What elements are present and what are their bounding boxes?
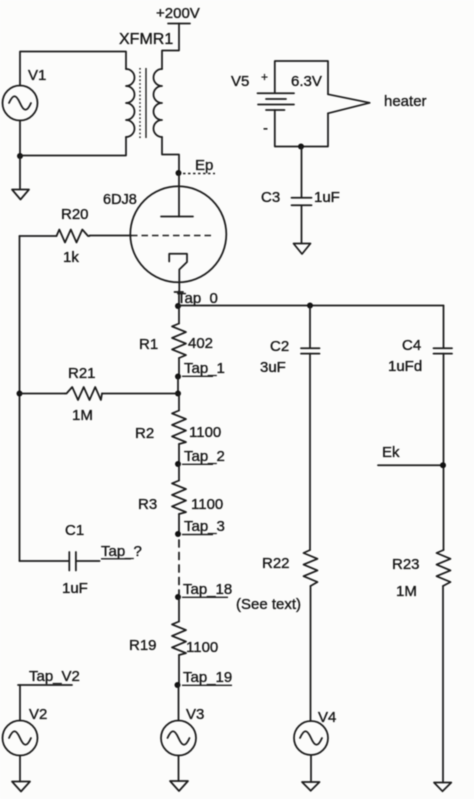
wire transformer secondary bottom to node Ep <box>162 137 179 173</box>
wire rail to C1 <box>20 560 70 562</box>
wire Tap_1 to R21 junction <box>177 377 179 394</box>
source V3 <box>161 721 196 756</box>
svg-text:R2: R2 <box>135 425 154 442</box>
svg-text:Ek: Ek <box>382 444 400 461</box>
svg-text:1uFd: 1uFd <box>388 358 422 375</box>
wire Tap_0 bus to C2 <box>309 306 311 348</box>
node Tap_3 underline <box>182 534 213 536</box>
svg-text:3uF: 3uF <box>260 359 286 376</box>
source V2 <box>3 721 38 756</box>
resistor R1 value 402 <box>188 335 213 352</box>
resistor R20 label <box>61 206 89 223</box>
wire dashed Tap_3 to Tap_18 <box>178 540 180 594</box>
capacitor C1 label <box>65 522 84 539</box>
wire +200V to transformer secondary top <box>162 24 179 70</box>
svg-text:1100: 1100 <box>186 639 218 656</box>
resistor R1 <box>172 306 186 377</box>
node +200V label <box>156 5 200 22</box>
capacitor C4 <box>434 348 453 353</box>
svg-text:1uF: 1uF <box>314 189 340 206</box>
svg-text:R23: R23 <box>392 556 420 573</box>
svg-text:Tap_3: Tap_3 <box>184 518 225 535</box>
capacitor C3 label <box>261 189 280 206</box>
wire C1 to Tap_? stub <box>76 560 100 562</box>
node Tap_18 dot <box>175 594 181 600</box>
node Ep dot <box>176 170 182 176</box>
ground V1 <box>12 190 29 200</box>
wire R20 to left rail <box>20 235 57 237</box>
svg-text:6.3V: 6.3V <box>291 73 322 90</box>
node Tap_1 underline <box>182 375 213 377</box>
resistor R22 note (See text) <box>236 596 301 613</box>
node Tap_1 dot <box>175 374 181 380</box>
node Ep label <box>195 157 213 174</box>
wire grid to R20 <box>90 235 132 237</box>
svg-text:Tap_2: Tap_2 <box>184 448 225 465</box>
node Tap_18 underline <box>182 596 228 598</box>
svg-text:C1: C1 <box>65 522 84 539</box>
wire V1 top to transformer primary top <box>20 52 126 86</box>
triode U1 cathode pin tick <box>175 291 184 293</box>
junction node V1 bottom <box>17 153 23 159</box>
junction node V5 bottom <box>298 144 304 150</box>
wire C2 to R22 <box>309 354 311 550</box>
capacitor C3 value 1uF <box>314 189 340 206</box>
resistor R23 label <box>392 556 420 573</box>
svg-text:R3: R3 <box>138 496 157 513</box>
node Tap_2 underline <box>182 463 213 465</box>
wire V5 top loop <box>275 61 328 94</box>
triode U1 plate <box>161 216 193 218</box>
svg-text:1M: 1M <box>72 407 93 424</box>
source V1 <box>3 86 38 121</box>
wire V2 to ground <box>19 756 21 782</box>
svg-text:1uF: 1uF <box>62 580 88 597</box>
ground V3 <box>170 781 188 791</box>
node Tap_V2 label <box>29 668 80 685</box>
wire Tap_0 bus to C4 <box>443 306 445 348</box>
node Ek dot <box>440 462 446 468</box>
svg-text:R22: R22 <box>262 555 290 572</box>
resistor R21 label <box>68 365 96 382</box>
wire junction to ground <box>19 156 21 189</box>
source V4 <box>294 721 328 755</box>
node Tap_18 label <box>183 581 232 598</box>
ground V2 <box>12 782 30 792</box>
svg-text:V3: V3 <box>186 706 204 723</box>
triode U1 cathode <box>169 254 187 291</box>
triode U1 envelope <box>130 186 226 282</box>
wire Ep to plate <box>178 173 180 217</box>
svg-text:C2: C2 <box>270 338 289 355</box>
wire Tap_19 to V3 <box>178 685 180 721</box>
wire Tap_0 bus to C4 branch <box>178 305 444 307</box>
wire Ek stub <box>378 464 444 466</box>
source V2 label <box>29 706 47 723</box>
svg-text:C4: C4 <box>402 337 421 354</box>
triode U1 6DJ8 label <box>103 192 137 208</box>
node Tap_0 dot <box>175 303 181 309</box>
source V3 label <box>186 706 204 723</box>
node Tap_0 label <box>177 290 218 307</box>
node Tap_3 dot <box>175 531 181 537</box>
svg-text:6DJ8: 6DJ8 <box>103 192 137 208</box>
resistor R19 value 1100 <box>186 639 218 656</box>
svg-text:1k: 1k <box>63 249 79 266</box>
wire V5 junction to C3 <box>301 147 303 198</box>
resistor R19 label <box>129 637 157 654</box>
node Tap_? underline <box>101 558 131 560</box>
battery V5 label <box>231 73 249 90</box>
wire R22 to V4 <box>310 586 312 721</box>
svg-text:Ep: Ep <box>195 157 213 174</box>
wire V1 bottom to junction <box>19 121 21 157</box>
node Ek label <box>382 444 400 461</box>
battery V5 <box>258 93 295 110</box>
wire left rail <box>19 236 21 561</box>
resistor R19 <box>172 597 186 685</box>
resistor R23 value 1M <box>396 583 417 600</box>
power rail bar +200V <box>168 23 190 25</box>
battery V5 minus mark <box>263 120 268 137</box>
svg-text:Tap_?: Tap_? <box>101 543 142 560</box>
svg-text:V5: V5 <box>231 73 249 90</box>
svg-text:C3: C3 <box>261 189 280 206</box>
wire Tap_V2 stub <box>18 684 72 686</box>
resistor R20 value 1k <box>63 249 79 266</box>
resistor R20 <box>57 230 90 243</box>
wire V4 to ground <box>310 755 312 782</box>
svg-text:R21: R21 <box>68 365 96 382</box>
svg-text:V2: V2 <box>29 706 47 723</box>
ground C3 <box>294 244 311 255</box>
node Tap_2 label <box>184 448 225 465</box>
node Tap_19 label <box>183 669 232 686</box>
resistor R23 <box>437 550 451 586</box>
ground R23 <box>434 783 451 792</box>
resistor R21 <box>20 387 179 400</box>
svg-text:Tap_V2: Tap_V2 <box>29 668 80 685</box>
node Tap_19 dot <box>175 682 181 688</box>
resistor R3 label <box>138 496 157 513</box>
svg-text:Tap_18: Tap_18 <box>183 581 232 598</box>
resistor R2 label <box>135 425 154 442</box>
wire C4 to R23 <box>443 354 445 550</box>
triode U1 grid <box>131 235 212 237</box>
node Tap_19 underline <box>182 684 232 686</box>
resistor R1 label <box>139 336 158 353</box>
node Tap_2 dot <box>175 461 181 467</box>
capacitor C2 label <box>270 338 289 355</box>
ground V4 <box>302 782 320 791</box>
capacitor C2 <box>301 348 320 353</box>
transformer XFMR1 label <box>119 31 173 48</box>
resistor R3 <box>172 464 186 534</box>
node Tap_3 label <box>184 518 225 535</box>
junction node C2 branch <box>307 303 313 309</box>
capacitor C1 value 1uF <box>62 580 88 597</box>
heater label <box>384 93 427 110</box>
svg-text:1M: 1M <box>396 583 417 600</box>
battery V5 value 6.3V <box>291 73 322 90</box>
capacitor C4 label <box>402 337 421 354</box>
resistor R2 value 1100 <box>189 424 221 441</box>
wire V3 to ground <box>178 756 180 782</box>
svg-text:Tap_19: Tap_19 <box>183 669 232 686</box>
wire Tap_V2 to V2 <box>19 685 21 721</box>
wire cathode to Tap_0 <box>178 291 180 306</box>
svg-text:-: - <box>263 120 268 137</box>
resistor R21 value 1M <box>72 407 93 424</box>
source V1 label <box>28 67 46 84</box>
wire R23 to ground <box>442 586 444 783</box>
wire C3 to ground <box>301 206 303 244</box>
resistor R22 label <box>262 555 290 572</box>
capacitor C4 value 1uFd <box>388 358 422 375</box>
wire V5 bottom loop <box>275 110 328 147</box>
svg-text:(See text): (See text) <box>236 596 301 613</box>
resistor R3 value 1100 <box>191 496 223 513</box>
capacitor C2 value 3uF <box>260 359 286 376</box>
svg-text:402: 402 <box>188 335 213 352</box>
svg-text:R19: R19 <box>129 637 157 654</box>
svg-text:Tap_0: Tap_0 <box>177 290 218 307</box>
svg-text:R1: R1 <box>139 336 158 353</box>
svg-text:+: + <box>261 70 268 84</box>
svg-text:Tap_1: Tap_1 <box>184 360 225 377</box>
battery V5 plus mark <box>261 70 268 84</box>
capacitor C1 <box>69 552 76 571</box>
junction node R21 <box>175 391 181 397</box>
resistor R2 <box>172 394 186 465</box>
wire junction to transformer primary bottom <box>20 137 126 156</box>
svg-text:XFMR1: XFMR1 <box>119 31 173 48</box>
node Ep underline <box>183 173 215 175</box>
svg-text:V1: V1 <box>28 67 46 84</box>
node Tap_? label <box>101 543 142 560</box>
svg-text:1100: 1100 <box>191 496 223 513</box>
resistor R22 <box>304 550 318 586</box>
svg-text:+200V: +200V <box>156 5 200 22</box>
capacitor C3 <box>292 198 312 206</box>
transformer XFMR1 <box>126 68 162 138</box>
node Tap_1 label <box>184 360 225 377</box>
svg-text:1100: 1100 <box>189 424 221 441</box>
svg-text:heater: heater <box>384 93 427 110</box>
heater terminal arrow <box>328 94 370 113</box>
junction node rail R21 <box>17 391 23 397</box>
svg-text:R20: R20 <box>61 206 89 223</box>
source V4 label <box>318 709 336 726</box>
